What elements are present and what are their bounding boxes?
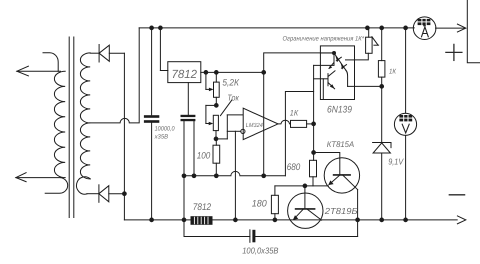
regulator U4 7812 (bottom)	[191, 217, 212, 225]
optocoupler U3 6N139 box	[320, 46, 354, 100]
svg-text:2Т819Б: 2Т819Б	[324, 206, 358, 216]
optocoupler interior: LED chain	[320, 53, 347, 86]
transistor Q1 KT815A	[324, 158, 359, 237]
op-amp U2 LM324	[241, 108, 278, 139]
leader line for Ток label	[220, 100, 232, 116]
wire: driver base rail y=185.9	[275, 186, 329, 195]
wire: center tap to top bus (with hop over diode rail)	[90, 28, 139, 123]
resistor R5 680	[310, 160, 317, 186]
ammeter PA1	[413, 17, 436, 40]
optocoupler interior: pin stub 2	[314, 53, 334, 65]
wire: shunt sense rail y=175.8 with hop	[184, 171, 285, 175]
capacitor C3 100.0x35V	[250, 230, 256, 243]
junction: riser1 on sense rail	[261, 173, 266, 178]
wire: op-amp + input network	[216, 115, 243, 139]
wire: top positive bus	[139, 27, 414, 29]
junction: R8 on bus	[379, 26, 384, 31]
wire: U1 output	[201, 71, 264, 73]
wire: main control vertical x=313.6	[313, 65, 315, 160]
junction: C2 lead a	[182, 173, 187, 178]
optocoupler interior: phototransistor	[314, 71, 335, 100]
junction: VD2 output node	[122, 191, 127, 196]
junction: R8 / opto emitter	[379, 84, 384, 89]
junction: KT815 base node	[311, 150, 316, 155]
junction: trimmer on bus	[365, 26, 370, 31]
resistor R8 1K	[378, 28, 385, 143]
svg-text:Ток: Ток	[227, 92, 239, 102]
svg-text:680: 680	[287, 162, 301, 173]
wire: op-amp output with hop	[278, 120, 291, 124]
junction: R1/R2 node	[214, 103, 219, 108]
junction: R2 bottom	[214, 137, 219, 142]
junction: VD3 on bottom bus	[379, 218, 384, 223]
svg-text:х35В: х35В	[154, 134, 168, 141]
svg-text:7812: 7812	[193, 202, 212, 213]
svg-text:1К: 1К	[290, 108, 299, 117]
svg-text:10000,0: 10000,0	[155, 126, 175, 133]
svg-text:Ограничение напряжения 1К*: Ограничение напряжения 1К*	[283, 35, 365, 42]
trimmer R7 1K*	[366, 28, 379, 53]
junction: LED anode	[332, 51, 336, 55]
voltmeter PV1	[394, 28, 416, 220]
junction: R4 to vertical	[311, 122, 316, 127]
wire: emitter stub to 1K node	[348, 85, 382, 87]
mains input arrow (bottom tap)	[16, 173, 61, 182]
junction: U1 input on bus	[158, 26, 163, 31]
wire: KT815 base feed	[314, 153, 340, 175]
svg-text:6N139: 6N139	[327, 105, 353, 116]
plus terminal	[446, 44, 462, 60]
junction: C1 bottom on bus	[149, 218, 154, 223]
potentiometer R1 5.2K	[206, 72, 219, 105]
junction: R3 bottom	[214, 173, 219, 178]
wire: ammeter to output arrow	[436, 27, 466, 29]
diode VD2 (bottom rectifier)	[87, 185, 125, 203]
svg-text:100,0х35В: 100,0х35В	[242, 245, 279, 255]
junction: aux rail on bus	[182, 218, 187, 223]
svg-text:100: 100	[197, 150, 211, 160]
svg-text:КТ815А: КТ815А	[327, 140, 355, 149]
junction: riser on bottom bus	[233, 218, 238, 223]
transformer T1 secondary winding	[76, 53, 90, 194]
svg-text:9,1V: 9,1V	[388, 157, 404, 167]
wire: auxiliary bottom rail with C3	[184, 176, 358, 237]
junction: R6 on bottom bus	[273, 218, 278, 223]
wire: trimmer to box	[355, 53, 369, 60]
label PA1 A	[422, 27, 429, 37]
junction: U1 out / riser	[261, 70, 266, 75]
wire: diode common vertical (negative rail feed)	[123, 53, 125, 220]
junction: C2 lead b	[192, 173, 197, 178]
resistor R3 100	[213, 139, 220, 176]
junction: 2T819 base	[303, 184, 308, 189]
svg-text:1К: 1К	[389, 69, 397, 76]
wire: riser to optocoupler LED (x=263.7)	[264, 53, 334, 176]
capacitor C2	[181, 115, 196, 176]
arrow: top bus output	[457, 24, 465, 32]
svg-text:5,2К: 5,2К	[222, 78, 239, 88]
wire: U1 ground pin down to C2	[187, 83, 189, 115]
wire: riser op-amp side (x=285.4)	[285, 92, 313, 176]
svg-text:180: 180	[252, 198, 268, 209]
mains input arrow (top tap)	[17, 66, 61, 76]
zener VD3 9.1V	[373, 143, 391, 220]
svg-text:LM324: LM324	[246, 122, 264, 129]
junction: R1 wiper tap	[204, 70, 209, 75]
transformer T1 core	[69, 37, 74, 218]
optocoupler interior: light arrows	[329, 63, 334, 69]
junction: C1 top on bus	[149, 26, 154, 31]
transformer T1 primary winding	[43, 53, 68, 194]
transistor Q2 2T819B	[288, 186, 323, 229]
resistor R4 1K	[291, 120, 314, 127]
optocoupler interior: collector stub to trimmer	[346, 59, 355, 61]
resistor R6 180	[271, 195, 278, 220]
junction: voltmeter tap on top bus	[403, 26, 408, 31]
label PV1 V	[402, 124, 409, 133]
wire: bottom negative bus	[124, 219, 457, 221]
minus terminal	[449, 194, 464, 196]
svg-text:7812: 7812	[172, 67, 198, 81]
junction: voltmeter on bottom bus	[403, 218, 408, 223]
junction: R1 top	[214, 70, 219, 75]
junction: Q1 collector on bus	[355, 218, 360, 223]
capacitor C1 10000.0x35V	[144, 28, 159, 220]
arrow: bottom bus output	[457, 216, 465, 224]
wire: inverting node riser to bottom bus	[234, 131, 236, 220]
load bracket top right	[467, 0, 480, 63]
potentiometer R2 current adjust	[206, 105, 219, 138]
regulator U1 7812	[160, 28, 200, 83]
diode VD1 (top rectifier)	[90, 45, 124, 63]
